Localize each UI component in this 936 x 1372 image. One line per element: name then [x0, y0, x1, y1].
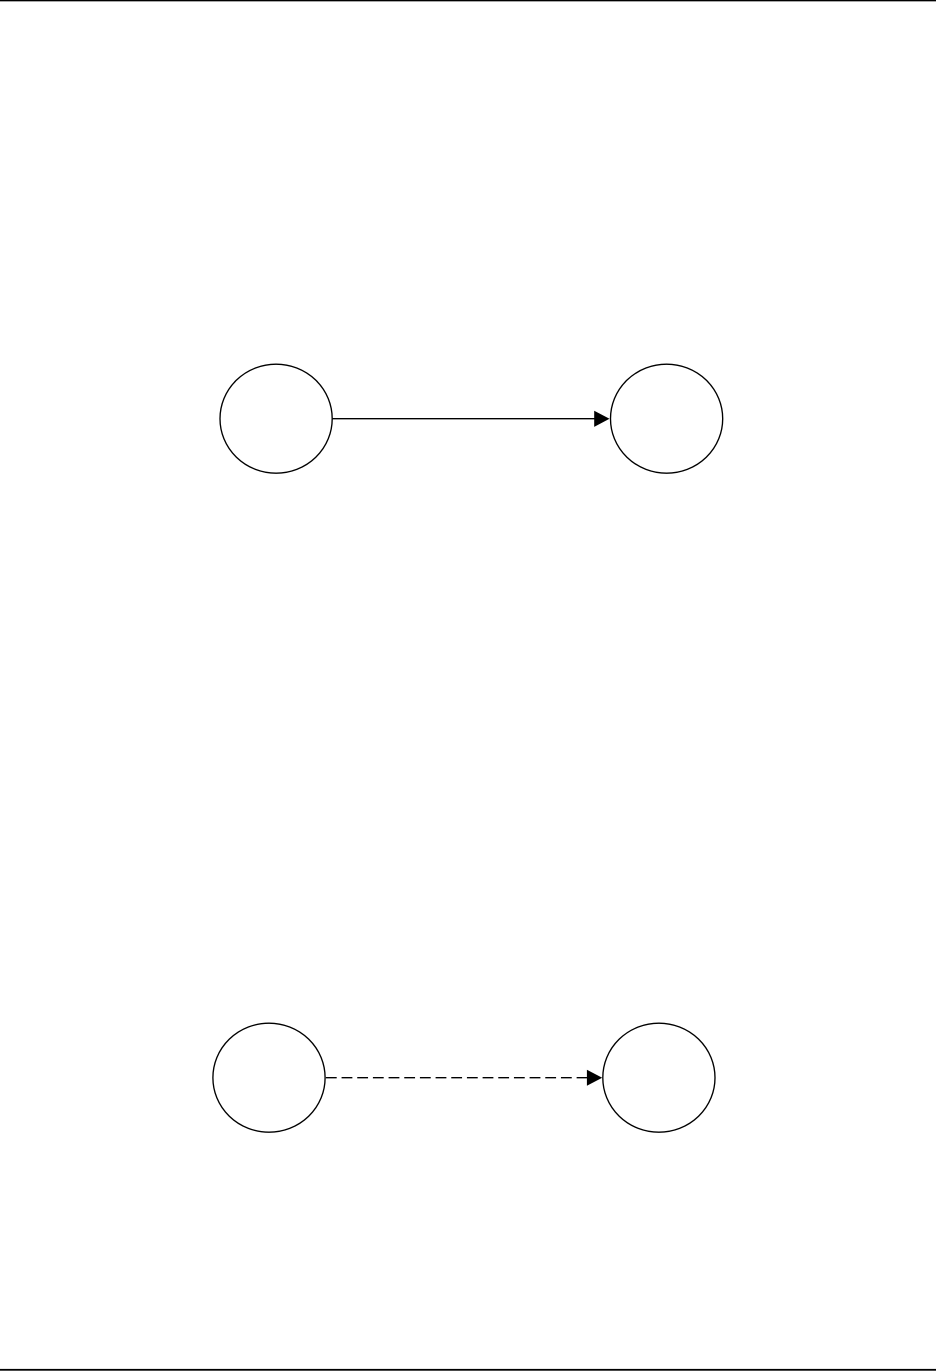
node D (bottom-right circle) — [603, 1023, 715, 1132]
bottom page border — [0, 1369, 936, 1371]
arrowhead of dashed edge — [587, 1070, 602, 1086]
node C (bottom-left circle) — [213, 1023, 325, 1132]
top page border — [0, 0, 936, 1]
wire dashed edge C to D — [326, 1077, 587, 1079]
node A (top-left circle) — [220, 364, 332, 473]
node B (top-right circle) — [611, 364, 723, 473]
wire solid edge A to B — [333, 418, 596, 420]
arrowhead of solid edge — [594, 411, 609, 427]
